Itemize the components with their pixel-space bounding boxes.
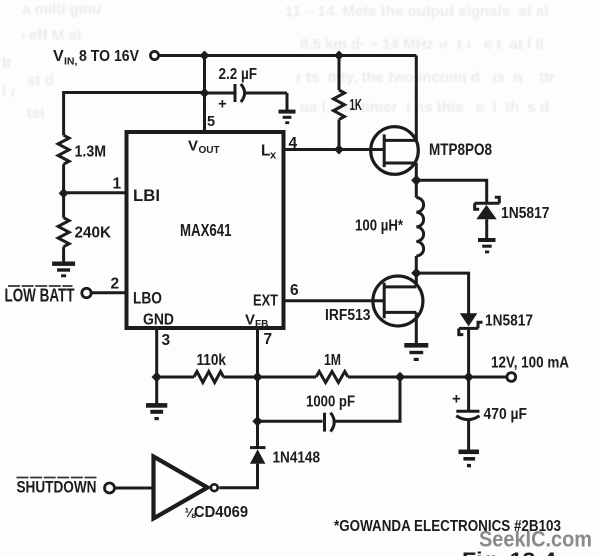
svg-text:8.5 km d· − 14 MHz ›r t › e: 8.5 km d· − 14 MHz ›r t › e t at l li	[300, 36, 544, 53]
svg-text:1M: 1M	[324, 352, 341, 369]
diode D1 1N5817 (schottky to ground)	[475, 197, 500, 209]
svg-text:V: V	[188, 138, 198, 155]
svg-text:6: 6	[290, 282, 299, 299]
svg-text:l r: l r	[2, 84, 16, 101]
svg-text:SeekIC.com: SeekIC.com	[479, 527, 592, 552]
ground under D1	[478, 238, 496, 253]
svg-text:8 TO 16V: 8 TO 16V	[79, 48, 140, 65]
svg-text:+: +	[218, 96, 227, 113]
capacitor C 470uF	[467, 377, 470, 410]
ground under Q2	[404, 343, 428, 361]
wire branch left to 1.3M	[64, 93, 205, 136]
svg-text:240K: 240K	[75, 225, 112, 242]
wire top rail	[159, 54, 417, 57]
output terminal 12V	[507, 373, 516, 382]
svg-text:470 µF: 470 µF	[484, 406, 528, 423]
resistor R 240K	[58, 218, 69, 247]
resistor R 1K	[338, 56, 341, 91]
svg-text:12V, 100 mA: 12V, 100 mA	[491, 355, 569, 372]
svg-text:1N4148: 1N4148	[273, 450, 321, 467]
node under inductor	[411, 268, 421, 278]
op-amp box MAX641	[127, 132, 284, 328]
wire pin 1	[64, 191, 127, 194]
svg-text:5: 5	[207, 114, 215, 130]
svg-text:CD4069: CD4069	[194, 504, 248, 521]
node LBI junction	[59, 188, 69, 198]
node top rail A	[200, 51, 210, 61]
svg-text:4: 4	[289, 135, 298, 152]
overline SHUTDOWN	[17, 477, 98, 479]
ground under pin 3	[146, 403, 167, 420]
transistor Q1 MTP8PO8	[371, 127, 419, 175]
svg-text:x: x	[270, 150, 277, 162]
wire pin 7 down	[256, 330, 259, 447]
overline LOW BATT	[8, 285, 73, 287]
svg-text:100 µH*: 100 µH*	[355, 218, 404, 235]
svg-text:1.3M: 1.3M	[75, 144, 107, 161]
node vin/cap junction	[200, 88, 210, 98]
svg-text:1K: 1K	[350, 97, 363, 114]
svg-text:1: 1	[113, 176, 122, 193]
svg-text:lt: lt	[2, 55, 11, 72]
svg-text:+: +	[452, 391, 461, 408]
diode D3 1N4148	[250, 446, 266, 449]
svg-text:MTP8PO8: MTP8PO8	[429, 140, 492, 159]
svg-text:1000 pF: 1000 pF	[306, 394, 355, 411]
faint bleed-through text row 1	[2, 1, 555, 122]
svg-text:SHUTDOWN: SHUTDOWN	[17, 478, 97, 497]
wire pin3 node to ground	[155, 377, 158, 404]
svg-text:› eff M st: › eff M st	[20, 27, 82, 44]
capacitor C 2.2uF	[205, 92, 234, 95]
wire node to diode D1	[416, 180, 486, 203]
svg-text:11 – 14. Mete the output signa: 11 – 14. Mete the output signals st al	[285, 3, 548, 20]
wire 240K to ground	[62, 247, 65, 262]
node Lx/1K	[334, 145, 344, 155]
inductor L1 100uH	[415, 180, 418, 197]
svg-text:r ts mty, the two incomi d: r ts mty, the two incomi d is n ttr	[296, 69, 555, 86]
wire pin 3	[155, 330, 158, 377]
svg-text:LBI: LBI	[133, 187, 160, 205]
node top rail B	[334, 51, 344, 61]
transistor Q2 IRF513	[373, 276, 423, 326]
wire vin down to pin 5	[203, 56, 206, 133]
ground under 240K	[52, 262, 75, 278]
resistor R 110k	[194, 372, 223, 383]
svg-text:EXT: EXT	[253, 293, 278, 310]
svg-text:GND: GND	[143, 312, 174, 329]
diode D2 1N5817 (schottky rectifier)	[460, 313, 478, 326]
resistor R 1M	[316, 372, 348, 383]
svg-text:IN,: IN,	[64, 56, 78, 68]
node under Q1	[411, 175, 421, 186]
ground under 470uF	[459, 450, 480, 468]
svg-text:2: 2	[111, 276, 120, 293]
node rail at pin3	[152, 372, 162, 382]
svg-text:V: V	[245, 312, 255, 329]
node rail at pin7	[252, 372, 262, 382]
wire EXT pin 6 to Q2 gate	[286, 299, 385, 302]
node rail at D2/470uF	[463, 372, 473, 382]
svg-text:MAX641: MAX641	[180, 220, 232, 240]
resistor R 1.3M	[58, 135, 69, 164]
capacitor C 1000pF	[258, 420, 323, 423]
wire pin 2	[92, 291, 127, 294]
wire cap to ground	[286, 93, 289, 110]
svg-text:110k: 110k	[197, 352, 227, 369]
svg-text:IRF513: IRF513	[325, 307, 371, 324]
wire between 1.3M and 240K	[62, 164, 65, 218]
svg-text:LOW BATT: LOW BATT	[5, 286, 75, 306]
svg-text:OUT: OUT	[199, 145, 220, 156]
svg-text:LBO: LBO	[133, 290, 162, 308]
svg-text:3: 3	[162, 332, 171, 349]
inverter U2 CD4069	[154, 457, 208, 519]
svg-text:Fig. 13-4: Fig. 13-4	[462, 549, 556, 556]
svg-text:st d: st d	[27, 72, 54, 89]
SHUTDOWN terminal	[105, 483, 115, 493]
wire node to diode D2	[416, 273, 468, 314]
svg-text:a milti gmu: a milti gmu	[22, 1, 101, 18]
output rail	[157, 376, 194, 379]
svg-text:1N5817: 1N5817	[485, 313, 533, 330]
ground under 2.2uF	[279, 110, 296, 125]
wire Lx pin 4	[286, 148, 385, 151]
node rail at 1000pF	[395, 372, 405, 382]
svg-text:FB: FB	[255, 319, 268, 330]
node feedback/1000pF	[252, 416, 262, 426]
svg-text:tei: tei	[27, 105, 45, 122]
svg-text:1N5817: 1N5817	[501, 205, 550, 222]
VIN terminal	[150, 51, 158, 59]
wire diode to inverter	[219, 464, 257, 488]
svg-text:2.2 µF: 2.2 µF	[219, 66, 258, 83]
svg-text:V: V	[53, 48, 64, 65]
svg-text:7: 7	[264, 331, 273, 348]
